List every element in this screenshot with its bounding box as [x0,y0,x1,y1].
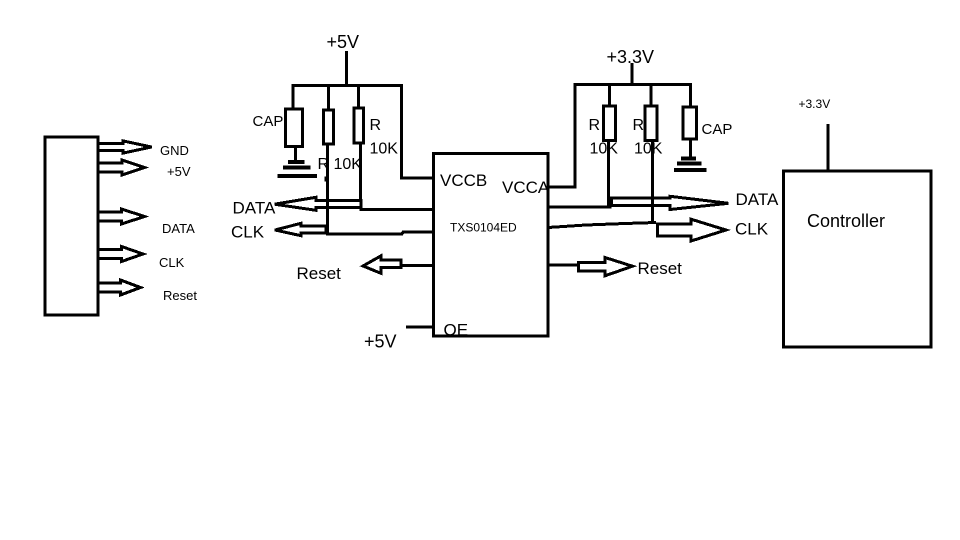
resistor R4 10K [645,106,657,141]
svg-text:+5V: +5V [167,164,191,179]
IC U1 TXS0104ED [434,154,549,337]
svg-text:CAP: CAP [702,121,733,138]
wire +5V bus [292,84,403,87]
wire +3.3V stem [631,63,634,86]
arrow DATA right [612,196,729,209]
wire C1 to ground [294,147,297,162]
stray mark [325,177,328,182]
wire DATA B-side [361,207,434,209]
resistor R2 10K [354,108,364,143]
wire +3.3V bus [574,83,693,86]
svg-text:Reset: Reset [163,288,197,303]
svg-text:+5V: +5V [327,32,360,52]
wire VCCA [548,85,575,188]
wire bus to C2 [689,85,692,108]
resistor R1 10K [324,110,334,144]
wire +5V stem [345,51,348,87]
svg-text:DATA: DATA [162,221,195,236]
capacitor C2 [683,107,697,139]
svg-text:+5V: +5V [364,332,397,352]
svg-text:+3.3V: +3.3V [607,47,655,67]
svg-text:R: R [633,117,645,134]
svg-text:OE: OE [444,321,469,340]
arrow CLK left [275,223,326,235]
wire bus to R3 [608,85,611,107]
svg-text:TXS0104ED: TXS0104ED [450,221,517,235]
svg-text:R 10K: R 10K [318,156,363,173]
pin arrow Reset [98,280,141,295]
wire bus to VCCB [402,84,434,178]
svg-text:10K: 10K [370,141,399,158]
wire DATA A-side [548,206,612,209]
pin arrow GND [98,141,152,153]
wire C2 to ground [689,139,692,157]
arrow Reset right [579,258,633,276]
wire bus to C1 [292,86,295,110]
wire Reset B-side [401,264,434,267]
svg-text:10K: 10K [634,141,663,158]
ground G1 [288,160,305,164]
controller U2 [784,171,932,347]
resistor R3 10K [604,106,616,141]
svg-text:10K: 10K [590,141,619,158]
svg-text:CLK: CLK [231,223,265,242]
wire CLK A-side [548,223,656,228]
wire R4 to CLK net [651,141,654,223]
svg-text:R: R [370,117,382,134]
wire bus to R1 [327,86,330,111]
connector J1 [45,137,98,315]
svg-text:GND: GND [160,143,189,158]
wire +3.3V controller stem [827,124,830,171]
svg-text:CLK: CLK [735,220,769,239]
svg-text:+3.3V: +3.3V [799,97,831,111]
capacitor C1 [286,109,303,147]
wire R2 to DATA net [359,143,362,209]
svg-text:CAP: CAP [253,113,284,130]
svg-text:VCCB: VCCB [440,171,487,190]
svg-text:CLK: CLK [159,255,185,270]
wire R3 to DATA net [607,141,610,209]
svg-text:Reset: Reset [638,259,683,278]
svg-text:Controller: Controller [807,211,885,231]
wire CLK B-side [326,232,434,234]
wire Reset A-side [548,264,579,267]
wire bus to R4 [650,85,653,107]
svg-text:DATA: DATA [233,199,276,218]
wire bus to R2 [357,86,360,109]
svg-text:DATA: DATA [736,190,779,209]
pin arrow +5V [98,160,145,175]
wire R1 to CLK net [326,144,329,234]
arrow Reset left [363,256,401,273]
svg-text:R: R [589,117,601,134]
arrow CLK right [658,219,727,241]
pin arrow CLK [98,247,143,262]
svg-text:Reset: Reset [297,264,342,283]
wire OE [406,326,434,329]
svg-text:VCCA: VCCA [502,178,550,197]
ground G2 [681,157,696,161]
pin arrow DATA [98,209,145,224]
arrow DATA left [275,197,362,210]
